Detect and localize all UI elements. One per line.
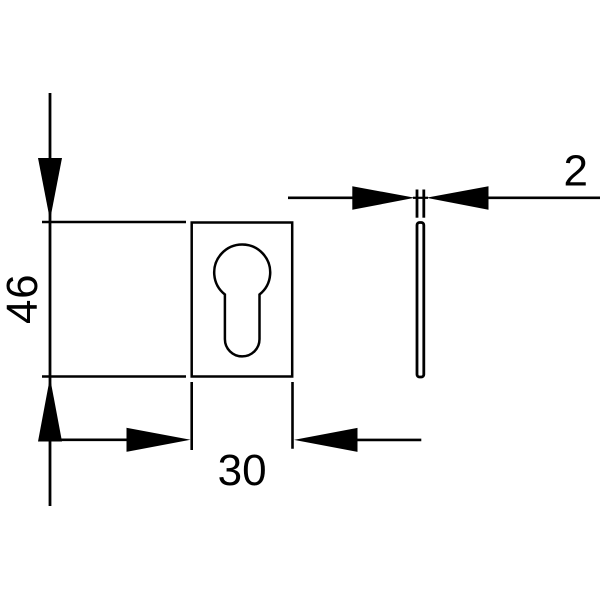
svg-text:2: 2 xyxy=(563,146,587,195)
svg-text:30: 30 xyxy=(218,446,267,495)
svg-text:46: 46 xyxy=(0,274,47,324)
